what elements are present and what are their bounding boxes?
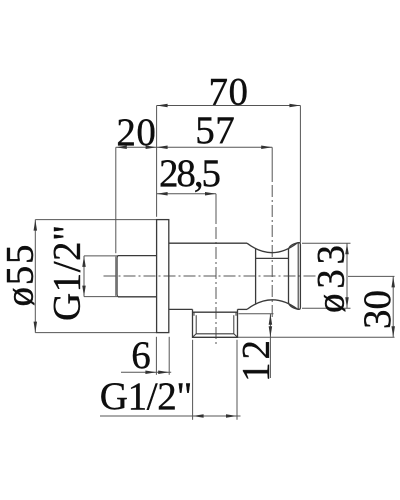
extension lines 6 <box>155 337 157 375</box>
dim line 6 <box>121 371 171 373</box>
svg-text:ø33: ø33 <box>310 245 353 313</box>
svg-text:30: 30 <box>356 290 399 329</box>
svg-text:G1/2": G1/2" <box>100 375 193 418</box>
svg-text:20: 20 <box>116 111 156 154</box>
centerline outlet vertical <box>215 194 217 222</box>
dim line 12 <box>269 314 271 378</box>
extension lines dia55 <box>35 219 156 221</box>
cup waist left <box>255 249 257 304</box>
svg-text:ø55: ø55 <box>0 245 41 307</box>
extension line 30 top <box>348 275 395 277</box>
centerline main axis <box>104 275 317 277</box>
outlet bottom corner chamfers <box>193 334 197 337</box>
extension line 12 top <box>239 313 274 315</box>
head top concave arc <box>247 243 298 253</box>
extension lines G1/2 left <box>84 255 117 257</box>
extension line right end of 70 dim <box>299 106 301 243</box>
outlet stub top line <box>193 311 238 313</box>
head bottom concave arc <box>247 300 298 310</box>
outlet thread lines <box>195 315 197 334</box>
svg-text:6: 6 <box>131 334 151 377</box>
centerline cup vertical <box>271 147 273 180</box>
svg-text:57: 57 <box>195 109 235 152</box>
outlet groove lines <box>193 312 195 315</box>
svg-text:70: 70 <box>209 71 249 114</box>
dim line G1/2 bottom <box>100 415 241 417</box>
body top line <box>169 242 247 244</box>
extension line 30/12 bottom <box>238 336 395 338</box>
head right cap <box>298 243 301 310</box>
svg-text:12: 12 <box>235 340 278 382</box>
dim line G1/2 left <box>83 256 85 297</box>
dim line 70 <box>157 105 301 107</box>
dim line 20 / 57 <box>116 146 272 148</box>
inlet pipe G1/2 <box>117 256 157 297</box>
cup rim line <box>256 257 289 259</box>
extension line left end of 20 dim <box>115 147 117 253</box>
cup waist right <box>289 243 298 309</box>
outlet stub <box>193 309 238 337</box>
dim line dia55 <box>34 220 36 333</box>
extension line left end of 70/57 dims (flange face) <box>156 106 158 217</box>
dim line dia33 <box>346 243 348 308</box>
svg-text:G1/2": G1/2" <box>45 225 88 321</box>
outlet bottom chamfer line <box>196 333 234 335</box>
inlet pipe chamfer line <box>115 257 117 296</box>
svg-text:28,5: 28,5 <box>159 152 221 195</box>
extension lines G1/2 bottom <box>192 340 194 420</box>
dim line 30 <box>392 276 394 337</box>
flange plate <box>157 220 169 333</box>
body bottom lines <box>169 308 193 310</box>
dim line 28,5 <box>157 193 216 195</box>
extension lines dia33 <box>302 242 351 244</box>
